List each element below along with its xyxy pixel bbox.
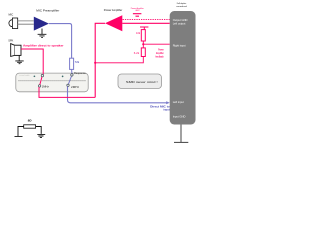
- svg-text:MIC Preamplifier: MIC Preamplifier: [36, 9, 59, 13]
- mic wire pair: [18, 21, 34, 24]
- SMD note box: [118, 74, 162, 89]
- capacitor tap: [140, 27, 148, 30]
- wire jack to soundcard left input: [68, 86, 167, 102]
- ground under preamp: [38, 29, 47, 38]
- svg-text:10k: 10k: [136, 31, 141, 35]
- dashed separator line: [19, 80, 87, 82]
- tap wire to Right input: [143, 43, 169, 45]
- svg-text:sound cable: sound cable: [19, 75, 29, 77]
- svg-text:soundcard: soundcard: [176, 5, 187, 8]
- svg-text:Output GND: Output GND: [173, 18, 188, 22]
- soundcard ground: [174, 125, 188, 143]
- svg-text:Amplifier direct to speaker: Amplifier direct to speaker: [23, 43, 64, 47]
- svg-text:input: input: [163, 108, 169, 112]
- node marker dot 2: [62, 76, 64, 78]
- svg-text:2MHz: 2MHz: [71, 86, 80, 89]
- svg-text:Power: Power: [158, 47, 163, 51]
- resistor R2 6.2k: [141, 48, 145, 57]
- resistor dummy load: [24, 125, 36, 128]
- svg-text:Left output: Left output: [173, 22, 186, 26]
- wire speaker to jack: [21, 49, 43, 74]
- svg-text:6.2k: 6.2k: [134, 51, 140, 55]
- amp ground symbol: [133, 14, 142, 17]
- pink jack diagonal: [40, 77, 42, 85]
- svg-text:Response: Response: [74, 71, 86, 75]
- svg-text:Power Amplifier: Power Amplifier: [104, 8, 123, 12]
- microphone MIC: [9, 20, 13, 27]
- svg-text:Full duplex: Full duplex: [177, 3, 187, 5]
- svg-text:Right input: Right input: [173, 43, 186, 47]
- svg-text:feedback: feedback: [156, 54, 164, 58]
- arrowhead into Left input: [166, 101, 170, 104]
- power amp output vertical wire: [95, 23, 105, 97]
- ground under speaker: [15, 55, 23, 63]
- left output line to amp input: [122, 22, 169, 24]
- svg-text:72k: 72k: [75, 60, 80, 64]
- svg-text:GND: GND: [135, 10, 140, 12]
- blue jack diagonal: [68, 76, 71, 84]
- pink jack contact top: [41, 74, 43, 76]
- svg-text:MIC: MIC: [9, 12, 14, 16]
- junction feedback node: [94, 62, 96, 64]
- jack box (patch box): [16, 73, 88, 92]
- svg-text:SMD never mind !: SMD never mind !: [126, 80, 158, 84]
- op-amp MIC preamplifier: [34, 17, 49, 31]
- soundcard panel: [170, 11, 196, 125]
- dashed GND line from soundcard: [123, 18, 170, 20]
- svg-text:Amplifier: Amplifier: [156, 51, 164, 55]
- wire preamp output to resistor: [49, 24, 72, 59]
- svg-text:Input GND: Input GND: [173, 114, 186, 118]
- wire right lead: [36, 127, 42, 134]
- wire resistor to jack: [71, 69, 73, 73]
- pink jack contact bottom: [38, 85, 40, 87]
- op-amp power amplifier: [105, 15, 122, 31]
- svg-text:1MHz: 1MHz: [42, 85, 50, 88]
- svg-text:Left input: Left input: [173, 100, 184, 104]
- junction divider tap: [142, 43, 144, 45]
- wire R2 bottom to output: [95, 57, 143, 63]
- speaker SPK: [14, 45, 21, 55]
- blue jack contact bottom: [67, 84, 69, 86]
- ground dummy load: [37, 134, 45, 137]
- node marker dot 1: [34, 75, 36, 77]
- resistor 72k: [70, 58, 74, 69]
- wire R1 to R2: [142, 41, 144, 48]
- blue jack contact top: [71, 74, 73, 76]
- svg-text:SPK: SPK: [8, 40, 13, 43]
- wire left lead: [15, 127, 24, 137]
- wire jack to amp output: [39, 87, 95, 97]
- resistor R1 10k: [141, 30, 145, 41]
